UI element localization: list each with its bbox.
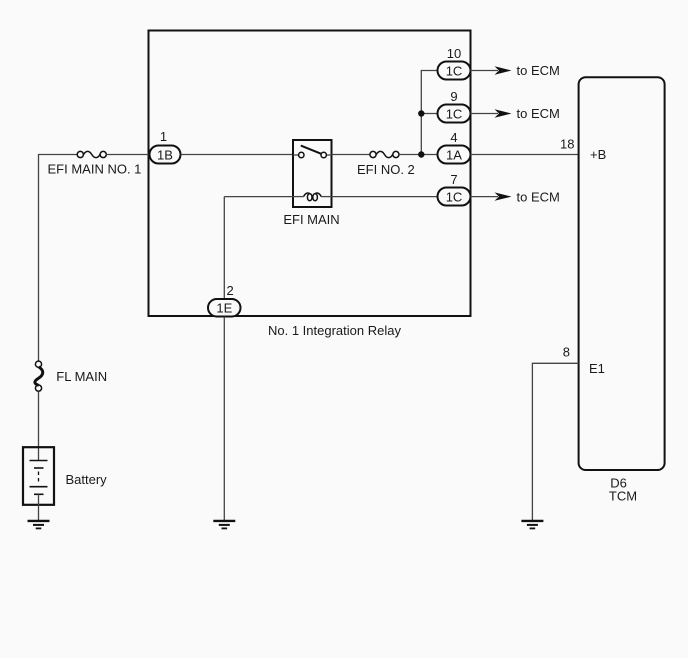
- wire fuse to pin 1B: [106, 154, 150, 156]
- wire FL MAIN to battery: [38, 391, 40, 460]
- svg-text:to ECM: to ECM: [517, 106, 560, 121]
- svg-text:FL MAIN: FL MAIN: [56, 369, 107, 384]
- wire relay to fuse EFI NO. 2: [332, 154, 370, 156]
- TCM box: [579, 77, 665, 470]
- ground under E1: [521, 521, 543, 529]
- svg-text:E1: E1: [589, 361, 605, 376]
- junction dot at pin 9 branch: [418, 110, 424, 116]
- pin 1A (4): [438, 146, 471, 164]
- wire down to pin 1E: [223, 197, 225, 300]
- svg-text:1: 1: [160, 129, 167, 144]
- wire coil to pin 7: [224, 196, 293, 198]
- wire fuse to pin 1A: [399, 154, 437, 156]
- svg-text:2: 2: [227, 283, 234, 298]
- wire from battery riser to fuse EFI MAIN NO. 1: [39, 155, 78, 362]
- svg-text:7: 7: [450, 172, 457, 187]
- relay coil lead wires: [293, 196, 304, 198]
- arrow to ECM from pin 10: [471, 70, 499, 72]
- relay switch wires: [293, 154, 299, 156]
- svg-text:1E: 1E: [216, 301, 232, 316]
- pin 1B: [150, 146, 181, 164]
- svg-text:10: 10: [447, 46, 461, 61]
- svg-text:No. 1 Integration Relay: No. 1 Integration Relay: [268, 323, 401, 338]
- svg-text:EFI MAIN NO. 1: EFI MAIN NO. 1: [48, 162, 142, 177]
- relay switch contact right: [321, 152, 326, 157]
- riser wire to pins 10 and 9: [421, 71, 437, 155]
- svg-text:EFI MAIN: EFI MAIN: [283, 212, 339, 227]
- arrow to ECM from pin 9: [471, 113, 499, 115]
- relay switch contact left: [299, 152, 304, 157]
- pin 1C (10): [438, 62, 471, 80]
- relay block outline (No. 1 Integration Relay box): [149, 31, 471, 317]
- relay switch blade: [301, 146, 321, 154]
- arrow to ECM from pin 7: [471, 196, 499, 198]
- svg-text:9: 9: [450, 89, 457, 104]
- fuse EFI NO. 2: [370, 151, 399, 157]
- wire battery to ground: [38, 494, 40, 520]
- junction dot at pin 4 wire: [418, 151, 424, 157]
- svg-text:TCM: TCM: [609, 488, 637, 503]
- wire 1B to relay: [181, 154, 294, 156]
- pin 1E (2): [208, 299, 241, 317]
- svg-text:1A: 1A: [446, 147, 462, 162]
- relay coil: [304, 193, 322, 201]
- svg-text:EFI NO. 2: EFI NO. 2: [357, 162, 415, 177]
- svg-text:to ECM: to ECM: [517, 189, 560, 204]
- svg-text:1C: 1C: [446, 189, 463, 204]
- svg-text:to ECM: to ECM: [517, 63, 560, 78]
- svg-text:1C: 1C: [446, 63, 463, 78]
- svg-text:1C: 1C: [446, 106, 463, 121]
- battery: [23, 447, 54, 505]
- pin 1C (9): [438, 105, 471, 123]
- wire E1 to ground riser: [532, 363, 578, 520]
- pin 1C (7): [438, 188, 471, 206]
- ground under 1E: [213, 521, 235, 529]
- svg-text:18: 18: [560, 137, 574, 152]
- wire branch to pin 9: [421, 113, 437, 115]
- svg-text:Battery: Battery: [66, 472, 108, 487]
- wire 1E to ground: [223, 317, 225, 521]
- fuse EFI MAIN NO. 1: [77, 151, 106, 157]
- wire pin 1A to TCM +B: [471, 154, 579, 156]
- relay EFI MAIN box: [293, 140, 332, 207]
- svg-text:+B: +B: [590, 147, 606, 162]
- svg-text:8: 8: [563, 345, 570, 360]
- svg-text:1B: 1B: [157, 147, 173, 162]
- svg-text:4: 4: [450, 130, 457, 145]
- fusible link FL MAIN: [35, 361, 43, 391]
- ground under battery: [28, 521, 50, 529]
